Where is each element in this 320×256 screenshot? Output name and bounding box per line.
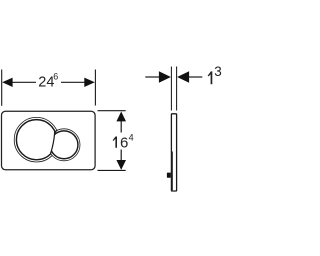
svg-text:6: 6 <box>53 72 58 82</box>
svg-text:6: 6 <box>120 135 128 152</box>
svg-text:4: 4 <box>129 132 134 142</box>
svg-text:3: 3 <box>214 64 222 79</box>
svg-text:24: 24 <box>38 75 54 91</box>
